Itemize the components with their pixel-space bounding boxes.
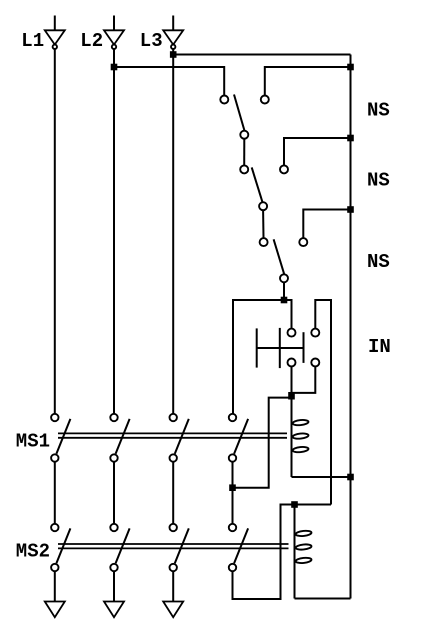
junction bus/MS1 coil: [347, 474, 354, 481]
wire L2 to NS1 left contact: [114, 67, 224, 95]
contactor MS1 pole4: [229, 414, 248, 462]
junction bus/NS3: [347, 206, 354, 213]
terminal out 3: [163, 571, 183, 617]
junction bus/NS1: [347, 64, 354, 71]
wire MS1 pole4 to MS2 pole4: [232, 462, 234, 524]
interlock IN actuator: [257, 328, 304, 368]
coil MS2: [295, 505, 312, 599]
svg-text:L1: L1: [21, 30, 44, 52]
wire L1 vertical: [54, 49, 56, 414]
svg-text:MS2: MS2: [16, 540, 50, 562]
wire NS2 right contact to bus: [284, 138, 351, 165]
contactor MS1 pole2: [110, 414, 129, 462]
wire IN bottom-left to node: [291, 367, 293, 396]
junction MS2 coil top: [291, 501, 298, 508]
svg-text:NS: NS: [367, 170, 390, 192]
svg-text:NS: NS: [367, 251, 390, 273]
terminal L3: [163, 16, 183, 50]
interlock IN contacts: [288, 329, 320, 367]
contactor MS2 pole4: [229, 524, 248, 571]
contactor MS1 linkage: [58, 433, 287, 437]
svg-text:L3: L3: [140, 30, 163, 52]
wire NS1 right contact to bus: [265, 67, 351, 95]
coil MS1: [292, 396, 309, 478]
junction IN top: [281, 297, 288, 304]
wire MS2 pole4 to coil branch: [233, 505, 332, 600]
terminal L2: [104, 16, 124, 50]
wire MS1 coil to bus: [292, 476, 351, 478]
terminal L1: [45, 16, 65, 50]
contactor MS2 pole1: [51, 524, 70, 571]
wire MS2 coil to bus bottom: [295, 598, 351, 600]
switch NS1: [220, 95, 268, 139]
wire node to MS1 pole4 bottom: [233, 398, 292, 488]
contactor MS2 linkage: [58, 544, 289, 548]
wire L3 vertical: [172, 49, 174, 414]
junction on L3: [170, 51, 177, 58]
wire L3 to right bus top: [173, 54, 350, 56]
wire node to IN top-left: [233, 300, 292, 414]
wire NS1 pole to NS2 left contact: [243, 139, 245, 165]
switch NS2: [240, 165, 288, 210]
junction on L2: [111, 64, 118, 71]
svg-text:NS: NS: [367, 100, 390, 122]
wire right bus: [350, 55, 352, 599]
contactor MS2 pole3: [170, 524, 189, 571]
junction MS1 pole4 bottom: [229, 484, 236, 491]
svg-text:IN: IN: [368, 336, 391, 358]
contactor MS1 pole3: [170, 414, 189, 462]
wire IN bottom-right to node: [292, 367, 316, 393]
wire NS3 pole down to node: [283, 283, 285, 301]
junction bus/NS2: [347, 135, 354, 142]
wire MS1 pole2 to MS2 pole2: [113, 462, 115, 524]
wire NS2 pole to NS3 left contact: [262, 210, 264, 238]
contactor MS2 pole2: [110, 524, 129, 571]
svg-text:MS1: MS1: [16, 431, 50, 453]
wire L2 vertical: [113, 49, 115, 414]
junction below IN: [288, 392, 295, 400]
wire MS1 pole3 to MS2 pole3: [172, 462, 174, 524]
wire MS1 pole1 to MS2 pole1: [54, 462, 56, 524]
switch NS3: [260, 238, 308, 282]
wire IN top-right to MS2 coil branch: [315, 300, 331, 505]
wire NS3 right contact to bus: [303, 210, 350, 238]
terminal out 1: [45, 571, 65, 617]
contactor MS1 pole1: [51, 414, 70, 462]
svg-text:L2: L2: [80, 30, 103, 52]
terminal out 2: [104, 571, 124, 617]
